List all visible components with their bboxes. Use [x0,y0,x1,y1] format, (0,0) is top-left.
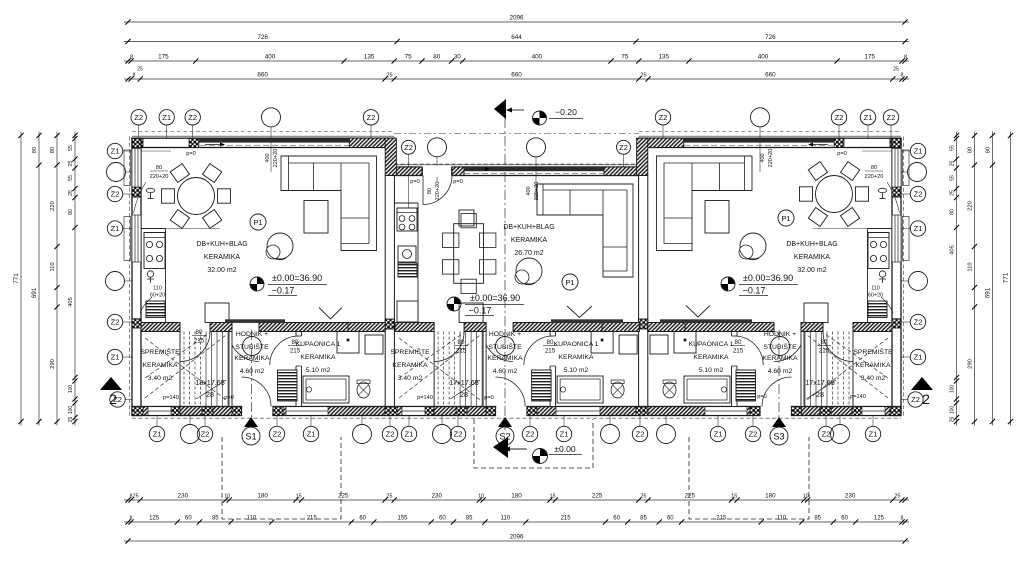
terrace dashed outlines [222,437,341,519]
svg-text:−0.17: −0.17 [272,286,295,296]
svg-text:60+20: 60+20 [150,293,165,299]
svg-text:220+20: 220+20 [865,174,884,180]
unit2 sofa [537,184,633,277]
svg-text:STUBIŠTE: STUBIŠTE [488,342,522,351]
svg-text:Z1: Z1 [162,113,171,122]
svg-text:KERAMIKA: KERAMIKA [487,355,523,362]
svg-text:8: 8 [901,73,904,79]
svg-text:2: 2 [109,391,117,407]
bottom dimension lines [124,499,909,501]
svg-text:8: 8 [130,516,133,522]
svg-text:DB+KUH+BLAG: DB+KUH+BLAG [196,241,247,248]
svg-text:17x17.65: 17x17.65 [449,378,479,387]
svg-text:215: 215 [194,338,205,345]
svg-text:80: 80 [458,339,465,346]
top wall right unit [639,135,901,137]
svg-text:771: 771 [1002,272,1009,283]
svg-text:175: 175 [158,54,169,61]
svg-text:230: 230 [845,493,856,500]
svg-text:220+20: 220+20 [273,149,279,168]
svg-text:p=0: p=0 [186,151,196,157]
svg-text:230: 230 [178,493,189,500]
party wall 2 (between unit 2 and 3) [639,176,648,416]
left exterior wall [132,138,141,415]
svg-text:Z1: Z1 [914,353,923,362]
unit3 sofa [657,156,753,251]
svg-text:25: 25 [949,161,955,167]
svg-text:Z2: Z2 [201,430,210,439]
svg-text:400: 400 [265,153,271,162]
svg-text:Z2: Z2 [367,113,376,122]
svg-text:55: 55 [68,145,74,151]
svg-text:215: 215 [456,348,467,355]
svg-text:KERAMIKA: KERAMIKA [204,254,241,261]
svg-text:Z1: Z1 [714,430,723,439]
top wall left unit [132,135,394,137]
svg-text:Z1: Z1 [405,430,414,439]
svg-text:80: 80 [985,147,991,153]
svg-text:KERAMIKA: KERAMIKA [300,354,336,361]
svg-text:KERAMIKA: KERAMIKA [693,354,729,361]
svg-text:Z1: Z1 [864,113,873,122]
svg-text:P1: P1 [253,218,262,227]
unit1 bottom strip: spremiste, stairs, hodnik, kupaonica [141,323,180,332]
svg-text:KERAMIKA: KERAMIKA [855,362,891,369]
svg-text:691: 691 [984,287,991,298]
svg-text:KUPAONICA 1: KUPAONICA 1 [689,341,734,348]
svg-text:100: 100 [68,385,74,394]
svg-text:3.40 m2: 3.40 m2 [148,375,173,382]
svg-text:5.10 m2: 5.10 m2 [306,367,331,374]
unit1 coffee table [304,201,328,234]
svg-text:10: 10 [224,494,230,500]
svg-text:32.00 m2: 32.00 m2 [207,267,236,274]
svg-text:110: 110 [50,262,56,271]
svg-text:100: 100 [949,406,955,415]
svg-text:28: 28 [816,390,824,399]
svg-text:8: 8 [133,73,136,79]
svg-text:−0.17: −0.17 [743,286,766,296]
svg-text:Z1: Z1 [111,353,120,362]
svg-text:220+20: 220+20 [435,182,441,201]
unit3 plant [740,233,766,259]
svg-text:110: 110 [501,516,511,522]
svg-text:10: 10 [478,494,484,500]
svg-text:p=0: p=0 [484,395,494,401]
unit3 coffee table [705,201,729,234]
svg-text:110: 110 [777,516,787,522]
svg-text:220+20: 220+20 [768,149,774,168]
right exterior wall [892,138,901,415]
svg-text:215: 215 [307,516,318,522]
svg-text:80: 80 [735,339,742,346]
svg-text:25: 25 [949,190,955,196]
svg-text:25: 25 [68,161,74,167]
svg-text:p=140: p=140 [417,395,433,401]
top wall middle unit [394,164,638,166]
svg-text:Z2: Z2 [887,113,896,122]
svg-text:60: 60 [613,516,620,522]
unit3 kitchen along right wall [867,229,869,323]
svg-text:Z2: Z2 [619,143,628,152]
svg-text:32.00 m2: 32.00 m2 [797,267,826,274]
svg-text:KERAMIKA: KERAMIKA [142,362,178,369]
svg-text:30: 30 [454,54,462,61]
svg-text:±0.00: ±0.00 [554,444,576,454]
svg-text:220: 220 [50,201,56,211]
svg-text:p=0: p=0 [757,394,767,400]
section mark 2 left [100,377,122,390]
left dimension lines [20,132,22,426]
svg-text:25: 25 [387,494,393,500]
svg-text:±0.00=36.90: ±0.00=36.90 [470,293,520,303]
svg-text:STUBIŠTE: STUBIŠTE [235,342,269,351]
svg-text:P1: P1 [565,278,574,287]
svg-text:18x17.65: 18x17.65 [195,378,225,387]
svg-text:SPREMIŠTE: SPREMIŠTE [390,347,430,356]
unit2 dining table and chairs [454,224,484,284]
svg-text:100: 100 [68,406,74,415]
svg-text:Z2: Z2 [659,113,668,122]
top dimension lines [124,21,909,23]
svg-text:85: 85 [212,516,219,522]
svg-text:15: 15 [731,494,737,500]
svg-text:4.60 m2: 4.60 m2 [240,368,265,375]
svg-text:Z2: Z2 [914,318,923,327]
svg-text:28: 28 [460,390,468,399]
svg-text:25: 25 [68,190,74,196]
svg-text:KERAMIKA: KERAMIKA [392,362,428,369]
svg-text:405: 405 [949,245,955,255]
svg-text:Z2: Z2 [273,430,282,439]
svg-text:60: 60 [185,516,192,522]
svg-text:400: 400 [265,54,276,61]
grid circles right [910,143,925,158]
svg-text:p=0: p=0 [837,151,847,157]
svg-text:80: 80 [967,147,973,153]
svg-text:771: 771 [13,273,20,284]
svg-text:225: 225 [685,493,696,500]
svg-text:85: 85 [814,516,821,522]
svg-text:±0.00=36.90: ±0.00=36.90 [272,273,322,283]
svg-text:Z2: Z2 [188,113,197,122]
grid circles left [107,143,122,158]
svg-text:HODNIK +: HODNIK + [236,331,268,338]
svg-text:180: 180 [765,493,776,500]
svg-text:726: 726 [257,34,268,41]
svg-text:KERAMIKA: KERAMIKA [794,254,831,261]
svg-text:80: 80 [427,188,433,194]
svg-text:Z2: Z2 [914,190,923,199]
svg-text:80: 80 [292,339,299,346]
svg-text:80: 80 [50,147,56,153]
svg-text:80: 80 [547,339,554,346]
svg-text:P1: P1 [781,214,790,223]
svg-text:215: 215 [561,516,572,522]
svg-text:25: 25 [137,67,143,73]
svg-text:80: 80 [32,147,38,153]
svg-text:400: 400 [526,186,532,195]
grid circles top [131,110,146,125]
svg-text:25: 25 [133,494,139,500]
svg-text:Z1: Z1 [307,430,316,439]
svg-text:80: 80 [68,209,74,215]
svg-text:Z2: Z2 [822,430,831,439]
svg-text:25: 25 [894,494,900,500]
party wall 1 (between unit 1 and 2) [385,176,394,416]
grid circles bottom [149,426,164,441]
top elevation -0.20 marker [494,99,506,119]
svg-text:100: 100 [949,385,955,394]
svg-text:726: 726 [765,34,776,41]
svg-text:p=0: p=0 [453,179,463,185]
svg-text:60: 60 [841,516,848,522]
svg-text:85: 85 [466,516,473,522]
svg-text:25: 25 [640,73,646,79]
svg-text:400: 400 [760,153,766,162]
svg-text:p=0: p=0 [224,395,234,401]
svg-text:220+20: 220+20 [534,182,540,201]
unit3 dining table [816,176,853,213]
svg-text:4.60 m2: 4.60 m2 [493,368,518,375]
svg-text:110: 110 [153,286,162,292]
svg-text:110: 110 [871,286,880,292]
svg-text:220: 220 [967,201,973,211]
building outer dashed insulation outline [129,137,131,419]
svg-text:60: 60 [439,516,446,522]
svg-text:60: 60 [359,516,366,522]
svg-text:15: 15 [296,494,302,500]
svg-text:KERAMIKA: KERAMIKA [558,354,594,361]
svg-text:S3: S3 [773,432,784,442]
svg-text:215: 215 [819,348,830,355]
svg-text:10: 10 [803,494,809,500]
svg-text:75: 75 [405,54,413,61]
svg-text:−0.17: −0.17 [469,306,492,316]
svg-text:290: 290 [967,359,973,369]
bottom exterior wall [132,407,901,416]
svg-text:Z2: Z2 [404,143,413,152]
unit2 plant [516,258,542,284]
svg-text:Z2: Z2 [454,430,463,439]
section mark 2 right [911,377,933,390]
svg-text:DB+KUH+BLAG: DB+KUH+BLAG [503,224,554,231]
unit1 plant [267,233,293,259]
svg-text:75: 75 [621,54,629,61]
svg-text:4.60 m2: 4.60 m2 [768,368,793,375]
svg-text:2096: 2096 [509,15,524,22]
svg-text:80: 80 [949,209,955,215]
svg-text:SPREMIŠTE: SPREMIŠTE [140,347,180,356]
svg-text:28: 28 [206,390,214,399]
svg-text:26.70 m2: 26.70 m2 [514,250,543,257]
svg-text:405: 405 [68,297,74,307]
svg-text:225: 225 [592,493,603,500]
section marker S1 [244,417,258,427]
benchmark unit1 [257,277,264,284]
svg-text:KERAMIKA: KERAMIKA [511,237,548,244]
svg-text:p=140: p=140 [850,394,866,400]
svg-text:60: 60 [667,516,674,522]
svg-text:175: 175 [864,54,875,61]
svg-text:Z1: Z1 [111,224,120,233]
svg-text:215: 215 [733,348,744,355]
svg-text:135: 135 [364,54,375,61]
svg-text:180: 180 [257,493,268,500]
svg-text:KUPAONICA 1: KUPAONICA 1 [296,341,341,348]
bar stool glyphs [146,188,154,192]
svg-text:110: 110 [247,516,257,522]
svg-text:80: 80 [871,165,877,171]
svg-text:110: 110 [967,262,973,271]
svg-text:Z1: Z1 [560,430,569,439]
svg-text:290: 290 [50,359,56,369]
right dimension lines [1010,132,1012,426]
svg-text:3.40 m2: 3.40 m2 [398,375,423,382]
svg-text:135: 135 [659,54,670,61]
svg-text:Z2: Z2 [636,430,645,439]
section marker S2 [498,417,512,427]
svg-text:5.10 m2: 5.10 m2 [564,367,589,374]
svg-text:Z2: Z2 [911,395,920,404]
svg-text:Z2: Z2 [526,430,535,439]
svg-text:125: 125 [149,516,160,522]
unit2 entry cabinet [459,210,474,226]
svg-text:155: 155 [397,516,408,522]
svg-text:Z2: Z2 [386,430,395,439]
svg-text:15: 15 [550,494,556,500]
svg-text:8: 8 [901,516,904,522]
unit1 sofa [281,156,377,251]
svg-text:STUBIŠTE: STUBIŠTE [763,342,797,351]
svg-text:25: 25 [949,417,955,423]
svg-text:Z2: Z2 [749,430,758,439]
step walls at middle unit [385,138,396,175]
svg-text:p=140: p=140 [163,395,179,401]
svg-text:p=0: p=0 [410,179,420,185]
svg-text:8: 8 [130,55,133,61]
svg-text:Z1: Z1 [914,224,923,233]
svg-text:KERAMIKA: KERAMIKA [234,355,270,362]
unit1 dining table [178,178,215,215]
svg-text:220+20: 220+20 [150,174,169,180]
svg-text:3.40 m2: 3.40 m2 [861,375,886,382]
unit2 bottom strip [395,323,434,332]
svg-text:Z1: Z1 [153,430,162,439]
svg-text:Z2: Z2 [111,190,120,199]
svg-text:55: 55 [949,145,955,151]
svg-text:400: 400 [532,54,543,61]
svg-text:55: 55 [949,175,955,181]
svg-text:215: 215 [290,348,301,355]
svg-text:HODNIK +: HODNIK + [764,331,796,338]
elevation marker at S2 [493,437,508,458]
svg-text:Z2: Z2 [111,318,120,327]
svg-text:25: 25 [386,73,392,79]
unit2 kitchen along party wall [417,203,419,325]
svg-text:691: 691 [31,287,38,298]
svg-text:25: 25 [641,494,647,500]
svg-text:5.10 m2: 5.10 m2 [699,367,724,374]
svg-text:660: 660 [765,72,776,79]
svg-text:60+20: 60+20 [868,293,883,299]
svg-text:230: 230 [432,493,443,500]
svg-text:8: 8 [130,494,133,500]
svg-text:HODNIK +: HODNIK + [489,331,521,338]
svg-text:KERAMIKA: KERAMIKA [762,355,798,362]
svg-text:55: 55 [68,175,74,181]
section marker S3 [772,417,786,427]
svg-text:80: 80 [821,339,828,346]
svg-text:215: 215 [545,348,556,355]
svg-text:Z1: Z1 [869,430,878,439]
svg-text:Z2: Z2 [134,113,143,122]
svg-text:80: 80 [156,165,162,171]
unit1 kitchen along left wall [165,229,167,323]
svg-text:180: 180 [511,493,522,500]
svg-text:Z1: Z1 [914,147,923,156]
unit3 bottom strip (mirrored) [853,323,892,332]
svg-text:2096: 2096 [509,534,524,541]
svg-text:Z2: Z2 [835,113,844,122]
niche bars and V symbols [319,308,342,320]
svg-text:8: 8 [904,55,907,61]
svg-text:85: 85 [640,516,647,522]
svg-text:225: 225 [338,493,349,500]
svg-text:17x17.65: 17x17.65 [805,378,835,387]
svg-text:644: 644 [511,34,522,41]
svg-text:Z1: Z1 [111,147,120,156]
svg-text:±0.00=36.90: ±0.00=36.90 [743,273,793,283]
svg-text:25: 25 [68,417,74,423]
svg-text:−0.20: −0.20 [555,107,577,117]
svg-text:660: 660 [511,72,522,79]
svg-text:DB+KUH+BLAG: DB+KUH+BLAG [786,241,837,248]
svg-text:80: 80 [433,54,441,61]
svg-text:S1: S1 [245,432,256,442]
section lines [504,100,506,430]
svg-text:400: 400 [758,54,769,61]
svg-text:660: 660 [257,72,268,79]
svg-text:SPREMIŠTE: SPREMIŠTE [853,347,893,356]
svg-text:125: 125 [874,516,885,522]
svg-text:25: 25 [893,67,899,73]
svg-text:KUPAONICA 1: KUPAONICA 1 [554,341,599,348]
svg-text:215: 215 [716,516,727,522]
svg-text:80: 80 [196,329,203,336]
svg-text:2: 2 [922,391,930,407]
